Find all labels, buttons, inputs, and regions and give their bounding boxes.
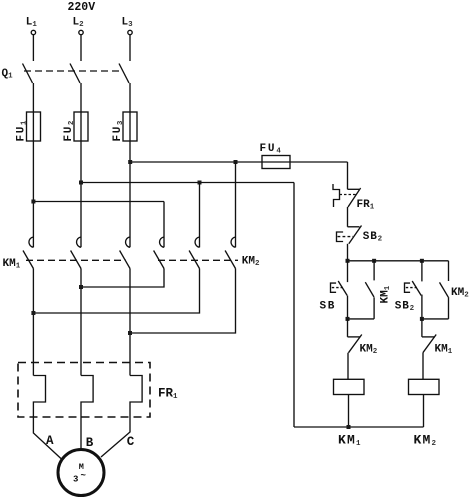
switch Q1 pole 3 blade [119,64,129,84]
wire FR1 to SB2 [347,207,349,227]
wire L1 to fuse [32,83,34,112]
contactor KM2 pole 2 [195,237,199,247]
svg-text:FU2: FU2 [63,119,76,142]
wire KM2 pole2 out to A [33,269,199,314]
svg-text:A: A [46,434,54,448]
wire control return drop [293,183,295,428]
motor M [58,450,104,496]
wire tap A to KM2 pole 1 [33,201,164,203]
node B tap [79,181,83,185]
wire phase B contact to heater [80,269,82,376]
node rail left [346,259,350,263]
wire L2 drop [80,35,82,61]
svg-text:L1: L1 [26,16,38,29]
svg-text:~: ~ [81,471,86,481]
wire coil KM1 to rail [348,395,350,428]
svg-text:L2: L2 [73,16,85,29]
stop button SB2 (NC) [348,226,360,228]
aux contact KM2 (NO, hold) [448,261,450,281]
wire phase B fuse to contact [80,112,82,247]
svg-text:FU3: FU3 [112,119,125,142]
svg-text:KM1: KM1 [435,344,453,357]
fuse FU3 [123,112,137,141]
svg-text:KM1: KM1 [3,258,21,271]
svg-text:SB: SB [320,300,336,312]
node KM2-pole3 feed [234,160,238,164]
svg-text:FU4: FU4 [260,143,283,156]
aux contact KM1 (NO, hold) [373,261,375,281]
coil KM1 [334,379,365,394]
wire tap C to FU4 [130,161,262,163]
switch Q1 link (dashed) [24,70,121,72]
terminal L1 [31,30,35,34]
switch Q1 pole 2 blade [70,64,80,84]
node join B [79,285,83,289]
terminal L3 [128,30,132,34]
node rail KM1 aux [372,259,376,263]
svg-text:KM2: KM2 [451,287,469,300]
wire heater C to motor [101,417,130,457]
node rail SB2 start [420,259,424,263]
wire phase C contact to heater [129,269,131,376]
interlock KM1 (NC) [421,319,423,337]
wire heater A to motor [33,417,62,460]
wire parallel join left [348,318,375,320]
fuse FU2 [74,112,88,141]
svg-text:SB2: SB2 [395,300,415,313]
wire coil KM2 to rail [423,395,425,428]
start button SB (NO) [347,261,349,282]
wire parallel join right [422,318,449,320]
wire drop to KM2 pole 2 [199,183,201,248]
wire KM2 pole3 out to C [130,269,236,334]
coil KM2 [409,379,440,394]
svg-text:Q1: Q1 [2,68,14,81]
wire L1 drop [32,35,34,61]
contactor KM1 pole 1 [29,237,33,247]
svg-text:L3: L3 [122,16,134,29]
wire L3 to fuse [129,83,131,112]
FR1 NC contact [348,188,360,190]
svg-text:KM2: KM2 [414,433,438,449]
contactor KM2 pole 1 [160,237,164,247]
wire L3 drop [129,35,131,61]
node C tap [128,160,132,164]
wire drop to KM2 pole 1 [163,202,165,248]
switch Q1 pole 1 blade [23,64,33,84]
svg-text:FR1: FR1 [158,386,178,401]
svg-text:220V: 220V [68,1,96,14]
svg-text:SB2: SB2 [363,231,383,244]
wire to coil KM2 [422,353,424,380]
wire FU4 to control [290,161,348,163]
node join A [31,311,35,315]
fuse FU1 [27,112,41,141]
terminal L2 [79,30,83,34]
wire KM2 pole1 out to B [81,269,164,288]
node join left [346,317,350,321]
wire phase A fuse to contact [32,112,34,247]
wire SB2 to rail [347,244,349,261]
wire to coil KM1 [347,353,349,380]
contactor KM1 link (dashed) [26,259,126,261]
svg-text:B: B [86,436,94,450]
control bottom rail [294,426,424,428]
node join right [420,317,424,321]
svg-text:FR1: FR1 [357,199,375,212]
wire L2 to fuse [80,83,82,112]
contactor KM2 link (dashed) [158,259,238,261]
wire phase A contact to heater [32,269,34,376]
svg-text:C: C [127,435,135,449]
wire heater B to motor [80,417,82,450]
wire drop to KM2 pole 3 [235,162,237,247]
contactor KM1 pole 2 [77,237,81,247]
start button SB2 (NO) [421,261,423,282]
heater element phase C [130,376,142,418]
control: wire FU4 down [347,162,349,189]
svg-text:KM1: KM1 [338,433,362,449]
heater element phase B [81,376,93,418]
contactor KM2 pole 3 [231,237,235,247]
wire tap B to control return [81,182,294,184]
node bottom rail [347,425,351,429]
interlock KM2 (NC) [347,319,349,337]
node KM2-pole2 feed [198,181,202,185]
svg-text:3: 3 [73,475,78,485]
thermal relay FR1 box (dashed) [18,363,150,418]
svg-text:KM1: KM1 [380,285,393,303]
svg-text:KM2: KM2 [360,344,378,357]
contactor KM1 pole 3 [126,237,130,247]
control top rail [348,260,449,262]
svg-text:KM2: KM2 [242,256,260,269]
svg-text:FU1: FU1 [16,119,29,142]
node A tap [31,200,35,204]
node join C [128,331,132,335]
wire phase C fuse to contact [129,112,131,247]
fuse FU4 [262,156,290,169]
heater element phase A [33,376,45,418]
